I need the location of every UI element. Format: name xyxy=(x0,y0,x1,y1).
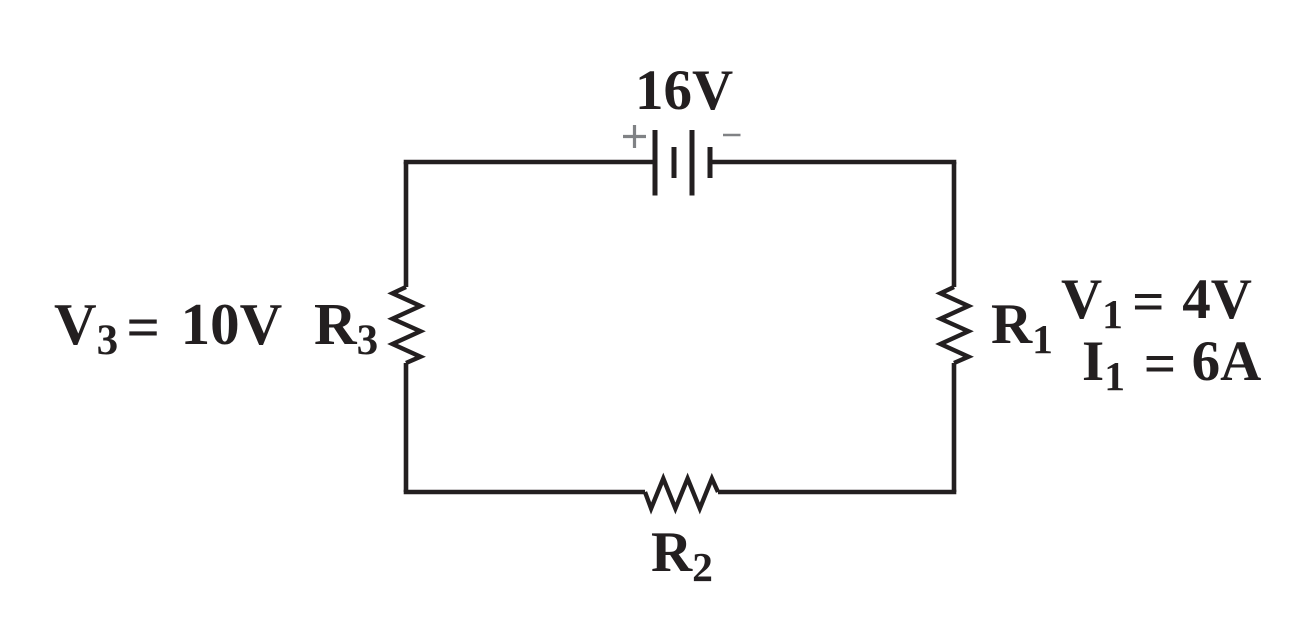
label I1 = 6A xyxy=(1082,333,1261,390)
wire left upper segment xyxy=(404,162,409,287)
wire right lower segment xyxy=(952,363,957,492)
wire bottom-right segment xyxy=(718,490,954,492)
battery B1 plate short negative right xyxy=(708,147,713,178)
battery B1 plate short xyxy=(672,147,677,178)
resistor R3 xyxy=(393,287,421,363)
wire bottom-left segment xyxy=(406,490,645,492)
battery B1 plate long positive left xyxy=(653,130,658,196)
minus sign xyxy=(723,134,741,137)
wire top-right segment xyxy=(710,162,954,164)
resistor R1 xyxy=(941,287,969,363)
label 16V battery value xyxy=(635,62,733,119)
resistor R2 xyxy=(645,479,718,509)
label R2 xyxy=(651,524,713,581)
wire right upper segment xyxy=(952,162,957,287)
label V1 = 4V xyxy=(1061,271,1252,328)
label V3 = 10V xyxy=(54,295,282,354)
label R1 xyxy=(991,296,1053,353)
label R3 xyxy=(314,295,378,354)
wire top-left segment xyxy=(406,162,655,164)
plus sign xyxy=(623,125,646,148)
battery B1 plate long xyxy=(690,130,695,196)
wire left lower segment xyxy=(404,363,409,492)
